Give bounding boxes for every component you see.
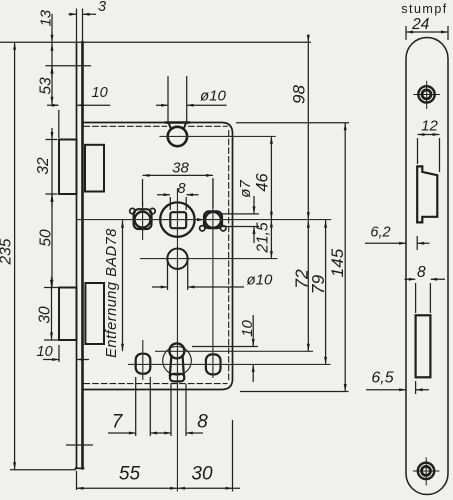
left post vertical centerline: [142, 202, 144, 240]
dim 3 line: [69, 13, 97, 15]
top screw hole inner: [422, 90, 431, 99]
dim o10 top line: [156, 104, 227, 106]
svg-text:38: 38: [172, 160, 189, 177]
fold dashed line right: [228, 131, 230, 383]
dim 10 keyhole arrows: [252, 339, 255, 372]
dim 8 spindle line: [157, 194, 199, 196]
follower horizontal centerline: [77, 219, 331, 221]
dim 10 bolt protrusion extension: [58, 345, 60, 362]
svg-text:ø10: ø10: [200, 88, 227, 105]
lower hole horizontal centerline: [140, 258, 278, 260]
keyhole body right side: [183, 356, 184, 375]
dim 72 line: [307, 220, 309, 352]
top hole tab horn right: [184, 123, 186, 128]
bottom right post slot: [206, 354, 221, 374]
svg-text:50: 50: [38, 229, 55, 247]
strike plate outline: [406, 38, 448, 495]
dim 145 arrows: [344, 123, 347, 392]
fold dashed line bottom: [84, 383, 227, 385]
dim 235 line: [14, 42, 16, 470]
dim 235 arrows: [13, 42, 16, 470]
svg-text:32: 32: [35, 157, 52, 175]
dim 10 latch protrusion line: [47, 104, 110, 106]
dim 98 line: [307, 35, 309, 220]
dim o10 lower arrows: [161, 286, 195, 289]
left fixing post circle o7: [135, 212, 151, 228]
svg-text:21,5: 21,5: [255, 222, 272, 254]
dim o7 arrows: [253, 206, 256, 234]
dim 21,5 arrows: [270, 220, 273, 259]
latch head (protruding through faceplate): [59, 140, 77, 195]
svg-text:53: 53: [38, 77, 55, 95]
dim 10 bolt line: [43, 359, 89, 361]
right post ear SW: [200, 226, 205, 231]
svg-text:8: 8: [197, 412, 208, 433]
dim 32 extension top: [46, 139, 58, 141]
dim 6,2 arrows: [399, 242, 424, 245]
left post ear NW: [130, 208, 135, 213]
top hole tab bold edge: [166, 121, 189, 124]
svg-text:10: 10: [37, 344, 53, 360]
Entfernung dim line: [122, 220, 124, 352]
right post vertical centerline: [212, 178, 214, 378]
tick 13/53: [46, 65, 92, 67]
dim 30 arrows: [50, 280, 53, 340]
main vertical centerline: [176, 188, 178, 492]
arrow on centerline at right post: [197, 218, 204, 221]
dim 24 arrows: [406, 31, 448, 34]
dim 30 extension top: [44, 287, 60, 289]
dim 8 cutout line: [405, 278, 446, 280]
Entfernung dim arrows: [121, 220, 124, 351]
dim 8 keyhole extensions: [171, 384, 186, 436]
dim 55 arrows: [77, 487, 178, 490]
dim 8 spindle extensions: [170, 197, 186, 210]
lower hole o10 circle: [167, 249, 187, 269]
svg-text:10: 10: [239, 320, 256, 337]
svg-text:55: 55: [119, 464, 141, 485]
dim o10 lower line: [152, 286, 244, 288]
latch body inside case: [85, 145, 104, 192]
svg-text:ø7: ø7: [237, 180, 254, 198]
svg-text:235: 235: [0, 238, 15, 265]
dim 24 extensions: [406, 26, 448, 40]
dim o7 extensions: [222, 214, 259, 227]
dim 55/30 line: [77, 487, 241, 489]
dim 38 arrows: [143, 174, 214, 177]
dim 8 cutout extensions: [416, 283, 431, 313]
keyhole body left side: [170, 356, 172, 375]
svg-text:6,2: 6,2: [370, 225, 390, 241]
right post ear SE: [221, 226, 226, 231]
dim 6,2 cutout extension: [416, 236, 418, 250]
right fixing post circle o7: [205, 212, 221, 228]
dim 50 arrows: [51, 194, 54, 287]
top screw hole outer: [418, 86, 434, 102]
dim 79 line: [325, 220, 327, 365]
svg-text:46: 46: [254, 173, 272, 192]
dim 46 / 21,5 line: [270, 136, 272, 258]
svg-text:30: 30: [37, 306, 54, 324]
svg-text:7: 7: [112, 412, 124, 433]
dim 32 arrows: [51, 132, 54, 202]
dim 10 latch arrows: [52, 104, 84, 107]
dim 30 extension bottom: [44, 339, 60, 341]
dim 24 line: [406, 31, 448, 33]
svg-text:stumpf: stumpf: [401, 2, 448, 16]
svg-text:8: 8: [417, 264, 426, 281]
left fixing post square: [134, 209, 152, 229]
dim 145 bottom extension: [240, 391, 349, 393]
svg-text:79: 79: [308, 275, 328, 295]
svg-text:24: 24: [411, 16, 430, 33]
tick across faceplate: [66, 444, 93, 446]
bottom screw crosshair: [413, 457, 440, 485]
bottom left post vertical centerline: [142, 340, 144, 380]
keyhole horizontal centerline: [155, 350, 313, 352]
dim 55/30 plate extension: [76, 471, 78, 490]
dim 6,2 line: [365, 242, 430, 244]
bolt head (protruding through faceplate): [59, 288, 77, 341]
keyhole bold circle: [169, 343, 184, 358]
dim 12 extensions: [418, 138, 440, 172]
svg-text:3: 3: [98, 0, 106, 15]
dim 6,5 cutout extension: [415, 381, 417, 394]
dim 38 line: [143, 174, 214, 176]
dim 145 top extension: [236, 122, 349, 124]
dim 50 line: [51, 194, 53, 288]
bottom screw hole outer: [418, 463, 434, 479]
svg-text:12: 12: [421, 118, 438, 135]
fold dashed line top: [84, 125, 227, 127]
dim 8 keyhole arrows: [164, 432, 193, 435]
dim 32 line: [51, 128, 53, 207]
dim 13 line: [51, 14, 53, 78]
bottom left post slot: [136, 354, 151, 374]
bottom posts horizontal centerline: [128, 363, 331, 365]
bolt body inside case: [85, 283, 104, 344]
svg-text:13: 13: [38, 9, 55, 26]
svg-text:30: 30: [191, 464, 213, 485]
svg-text:98: 98: [290, 85, 309, 104]
faceplate right edge: [81, 42, 84, 468]
top screw crosshair: [413, 81, 440, 109]
top hole tab horn left: [169, 123, 171, 128]
dim 10 keyhole line: [252, 315, 254, 382]
extension line top of plate / 235 / 98: [0, 41, 311, 43]
right fixing post square: [204, 211, 222, 228]
follower (nut) circle: [160, 202, 194, 236]
dim 8 spindle arrows: [164, 193, 194, 196]
svg-text:6,5: 6,5: [371, 370, 393, 387]
top hole horizontal centerline: [159, 135, 275, 137]
faceplate left edge: [76, 42, 78, 468]
dim o10 top extensions: [168, 76, 187, 124]
dim 13 arrows: [51, 35, 54, 74]
dim 6,5 line: [366, 389, 429, 391]
left post ear NE: [150, 208, 155, 213]
dim 6,5 arrows: [399, 388, 423, 391]
dim 32 extension bottom: [46, 193, 58, 195]
dim 53 line: [51, 66, 53, 105]
keyhole foot: [170, 374, 184, 382]
dim 10 keyhole extension: [192, 346, 258, 348]
dim 145 line: [344, 123, 346, 392]
dim 53 arrows: [51, 66, 54, 104]
faceplate bottom edge: [76, 467, 84, 469]
dim 10 bolt arrows: [52, 358, 84, 361]
dim 8 cutout arrows: [409, 278, 437, 281]
dim 235 bottom extension: [10, 469, 76, 471]
lock case outline: [84, 123, 233, 390]
keyhole cylinder thin circle: [163, 347, 192, 376]
dim o10 top arrows: [161, 104, 193, 107]
dim 12 line: [418, 134, 440, 136]
dim 3 arrows: [70, 13, 90, 16]
svg-text:Entfernung BAD78: Entfernung BAD78: [104, 228, 120, 358]
bolt cutout: [416, 315, 431, 377]
dim 98 arrows: [307, 35, 310, 220]
dim 38 extensions: [143, 179, 214, 208]
follower square spindle hole 8mm: [170, 212, 186, 228]
svg-text:ø10: ø10: [247, 272, 274, 289]
dim 72 arrows: [307, 220, 310, 351]
dim 7/8 line: [108, 432, 203, 434]
dim o7 line: [253, 196, 255, 243]
dim o10 lower extensions: [168, 262, 188, 290]
dim 7 extensions: [136, 377, 151, 436]
dim 3 extension left: [76, 9, 78, 43]
dim 12 arrows: [418, 133, 440, 136]
top hole o10 bold circle: [168, 127, 187, 146]
svg-text:8: 8: [177, 181, 185, 197]
case right edge extension: [232, 420, 234, 492]
dim 79 arrows: [324, 220, 327, 364]
dim 30 bottom arrows: [178, 487, 233, 490]
latch cutout: [417, 166, 437, 222]
dim 7 arrows: [129, 432, 157, 435]
dim 10 latch extension: [58, 110, 60, 138]
dim 46 arrows: [270, 136, 273, 219]
svg-text:10: 10: [92, 85, 108, 101]
bottom screw hole inner: [422, 466, 431, 475]
dim 3 extension right: [82, 9, 84, 43]
dim 30 line: [51, 277, 53, 340]
svg-text:145: 145: [328, 248, 347, 277]
